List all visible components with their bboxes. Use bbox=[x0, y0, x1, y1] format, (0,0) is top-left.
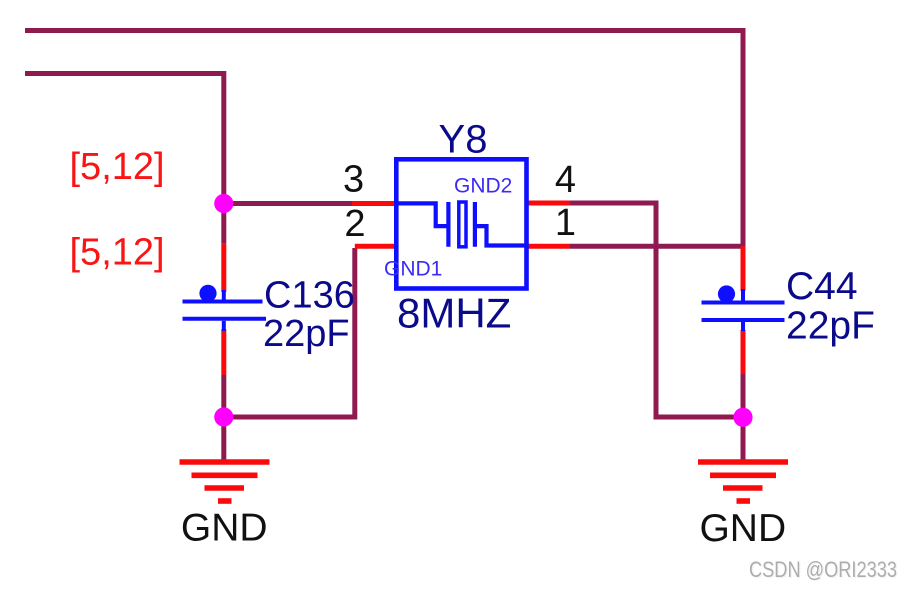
svg-text:GND: GND bbox=[699, 507, 786, 550]
svg-text:22pF: 22pF bbox=[786, 305, 875, 348]
svg-text:Y8: Y8 bbox=[439, 117, 488, 161]
svg-text:C136: C136 bbox=[264, 275, 355, 317]
svg-text:[5,12]: [5,12] bbox=[70, 146, 165, 188]
svg-text:GND2: GND2 bbox=[454, 175, 512, 198]
svg-text:1: 1 bbox=[555, 202, 576, 244]
svg-text:3: 3 bbox=[343, 159, 364, 201]
svg-text:4: 4 bbox=[555, 159, 576, 201]
svg-text:22pF: 22pF bbox=[263, 313, 350, 355]
svg-text:GND1: GND1 bbox=[384, 258, 442, 281]
svg-text:CSDN @ORI2333: CSDN @ORI2333 bbox=[749, 557, 897, 582]
svg-text:[5,12]: [5,12] bbox=[70, 232, 165, 274]
svg-text:8MHZ: 8MHZ bbox=[397, 290, 511, 337]
svg-text:GND: GND bbox=[181, 507, 268, 550]
svg-text:2: 2 bbox=[344, 203, 365, 245]
svg-text:C44: C44 bbox=[786, 265, 858, 308]
